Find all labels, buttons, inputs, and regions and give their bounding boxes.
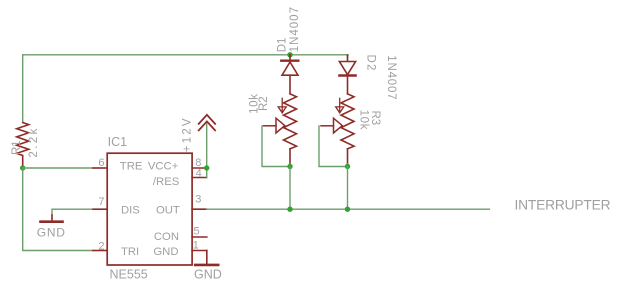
node junction R2 bottom [287, 164, 292, 169]
svg-text:GND: GND [153, 246, 178, 258]
pin 8 VCC+ stub [192, 167, 207, 169]
wire R2 riser to bus [289, 167, 291, 210]
svg-text:/RES: /RES [153, 176, 180, 188]
svg-text:GND: GND [37, 226, 66, 240]
node junction bus R2 [287, 207, 292, 212]
svg-text:D2: D2 [365, 55, 377, 72]
svg-text:R1: R1 [11, 140, 23, 155]
pin 5 CON stub [192, 236, 207, 238]
potentiometer R2 [264, 94, 297, 164]
wire pin7 to GND [52, 209, 93, 215]
svg-text:IC1: IC1 [108, 135, 128, 149]
wire OUT bus [207, 208, 490, 210]
pin 2 TRI stub [93, 250, 107, 252]
svg-text:INTERRUPTER: INTERRUPTER [515, 198, 611, 213]
wire left drop to pin2 [23, 168, 93, 251]
wire R2 bottom lead [289, 164, 291, 167]
node junction bus R3 [345, 207, 350, 212]
wire R3 riser to bus [347, 167, 349, 210]
pin 6 TRE stub [93, 167, 107, 169]
node junction pin8 [204, 165, 209, 170]
resistor R1 [17, 123, 29, 169]
svg-text:R3: R3 [369, 111, 381, 126]
pin 4 /RES stub [192, 177, 207, 179]
wire R3 wiper loop [319, 126, 348, 167]
wire R2 wiper loop [262, 126, 290, 167]
svg-text:DIS: DIS [121, 205, 140, 217]
svg-text:1N4007: 1N4007 [289, 6, 301, 52]
svg-text:7: 7 [98, 196, 104, 208]
pin 1 GND stub [192, 250, 207, 252]
svg-text:2: 2 [98, 241, 104, 253]
wire left drop to R1 [22, 55, 24, 123]
svg-text:NE555: NE555 [110, 268, 148, 282]
ground GND left [41, 215, 63, 222]
svg-text:OUT: OUT [156, 205, 180, 217]
svg-text:3: 3 [195, 194, 201, 206]
op-amp U1: IC1 NE555 box [107, 153, 192, 265]
svg-text:+12V: +12V [182, 116, 194, 152]
ground GND bottom [195, 264, 218, 267]
wire pin1 to GND [206, 251, 208, 264]
svg-text:TRE: TRE [120, 160, 143, 172]
wire D2 drop [347, 55, 349, 58]
svg-text:VCC+: VCC+ [148, 160, 179, 172]
diode D2 [339, 55, 355, 94]
svg-text:CON: CON [154, 231, 179, 243]
svg-text:TRI: TRI [121, 246, 139, 258]
potentiometer R3 [321, 94, 354, 164]
wire +12V drop to pin8 [206, 124, 208, 168]
node junction D1 tap [287, 52, 292, 57]
svg-text:2.2k: 2.2k [28, 126, 40, 157]
wire pin8 to pin4 link [206, 168, 208, 178]
pin 3 OUT stub [192, 208, 207, 210]
svg-text:1: 1 [193, 240, 199, 252]
node junction R1/pin6 [20, 165, 25, 170]
svg-text:R2: R2 [258, 96, 270, 111]
svg-text:5: 5 [194, 226, 200, 238]
svg-text:GND: GND [194, 268, 222, 282]
diode D1 [281, 55, 298, 94]
node junction R3 bottom [345, 164, 350, 169]
svg-text:4: 4 [196, 167, 202, 179]
pin 7 DIS stub [93, 208, 107, 210]
wire R3 bottom lead [347, 164, 349, 167]
svg-text:6: 6 [98, 157, 104, 169]
svg-text:10k: 10k [358, 110, 370, 131]
svg-text:D1: D1 [277, 38, 289, 53]
wire pin6 [23, 167, 93, 169]
svg-text:1N4007: 1N4007 [385, 55, 397, 100]
wire top bus [23, 54, 348, 56]
power +12V symbol [199, 115, 215, 131]
